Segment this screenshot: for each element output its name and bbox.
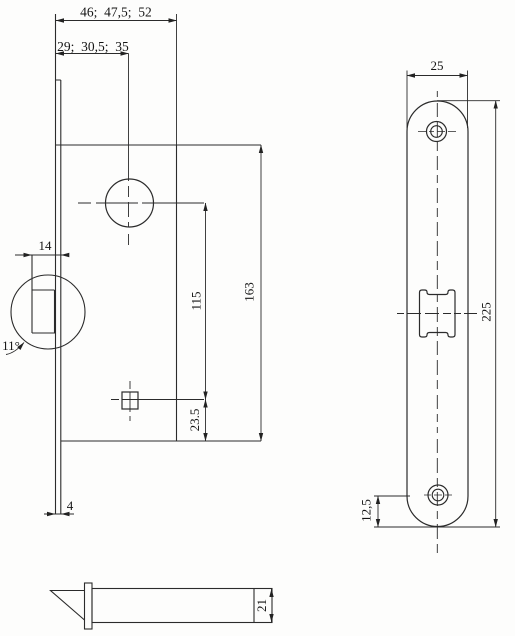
centerline dashes inside handle hole — [128, 186, 130, 227]
dimension 21 arrows on case right edge — [271, 589, 273, 596]
faceplate front edge (left view, outer line + extension line up to dims) — [55, 14, 57, 514]
latch bolt right edge — [54, 290, 56, 333]
square horizontal centerline extending to 115 dim — [111, 399, 204, 401]
dimension line 163 — [260, 145, 262, 441]
top extension line for 225 — [437, 100, 500, 102]
follower square hole — [122, 392, 138, 409]
svg-text:12,5: 12,5 — [358, 499, 373, 522]
handle hub hole (circle) — [106, 179, 154, 227]
vertical centerline / extension from 29-dim through handle hole — [128, 54, 130, 182]
bottom screw hole inner circle — [432, 489, 444, 501]
dimension line 225 — [495, 101, 497, 527]
dimension line 4 (faceplate thickness, outside arrows) — [44, 513, 74, 515]
dimension line 115 — [205, 203, 207, 400]
dimension line 14 (outside arrows) — [15, 254, 68, 256]
extension line for 12,5 at screw centre — [374, 495, 410, 497]
dimension line 29; 30,5; 35 — [56, 53, 129, 55]
svg-text:25: 25 — [431, 58, 444, 73]
faceplate inner edge (left view) — [60, 80, 62, 514]
leader line for 11 degrees — [6, 343, 24, 355]
bottom screw hole horizontal centerline — [424, 494, 453, 496]
top screw hole outer circle — [427, 122, 447, 142]
centerline dash below handle hole — [128, 234, 130, 245]
svg-text:14: 14 — [39, 238, 53, 253]
horizontal centerline through latch opening — [397, 313, 477, 315]
side view faceplate bar — [85, 583, 93, 629]
dimension line 23.5 — [205, 400, 207, 442]
latch bolt bottom edge — [32, 332, 56, 334]
side view lock case rectangle — [92, 589, 272, 623]
bottom screw hole outer circle — [428, 485, 448, 505]
extension line right for 25 — [467, 71, 469, 129]
dimension line 12,5 — [377, 496, 379, 527]
svg-text:11°: 11° — [2, 338, 20, 353]
lock body right edge — [176, 145, 178, 441]
latch opening (spool shaped cutout) — [420, 290, 456, 337]
faceplate top end tick — [56, 79, 61, 81]
svg-text:115: 115 — [188, 291, 203, 310]
svg-text:4: 4 — [67, 498, 74, 513]
side view inner end line — [253, 589, 255, 623]
horizontal centerline of handle hole — [78, 202, 204, 204]
lock body bottom edge with extension to 163 dim — [61, 440, 261, 442]
dimension line 25 — [407, 75, 468, 77]
striker plate outline (right view, rounded ends) — [407, 101, 468, 527]
vertical dashed centerline of plate — [436, 91, 438, 553]
latch bolt left edge + extension to 14-dim — [31, 255, 33, 333]
svg-text:225: 225 — [478, 302, 493, 322]
detail circle around latch bolt — [11, 275, 85, 349]
lock body top edge with extension to 163 dim — [56, 144, 262, 146]
extension line right for 46-dim — [176, 14, 178, 145]
svg-text:29; 30,5; 35: 29; 30,5; 35 — [57, 39, 129, 54]
square vertical centerline — [129, 381, 131, 421]
svg-text:163: 163 — [241, 282, 256, 302]
bottom extension line for 225 and 12,5 — [374, 526, 500, 528]
side view latch bolt bevel (triangle) — [51, 591, 85, 621]
svg-text:23.5: 23.5 — [187, 409, 202, 432]
dimension line 46; 47,5; 52 — [56, 20, 177, 22]
extension line left for 25 — [406, 71, 408, 129]
top screw hole horizontal centerline — [418, 131, 456, 133]
top screw hole inner circle — [431, 126, 443, 138]
svg-text:46; 47,5; 52: 46; 47,5; 52 — [80, 5, 152, 20]
latch bolt top edge — [32, 289, 55, 291]
svg-text:21: 21 — [254, 599, 269, 612]
